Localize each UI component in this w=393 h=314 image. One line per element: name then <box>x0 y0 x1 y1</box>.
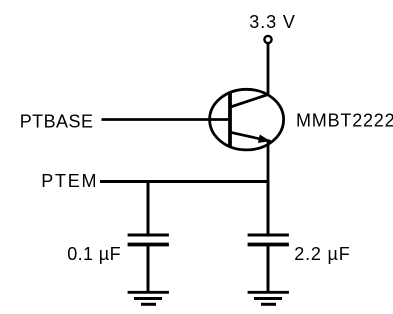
svg-text:3.3 V: 3.3 V <box>249 12 296 32</box>
svg-text:PTBASE: PTBASE <box>20 112 94 132</box>
svg-text:PTEM: PTEM <box>41 171 98 191</box>
svg-text:2.2 µF: 2.2 µF <box>294 244 350 264</box>
svg-text:MMBT2222: MMBT2222 <box>296 111 393 131</box>
svg-text:0.1 µF: 0.1 µF <box>67 244 121 264</box>
